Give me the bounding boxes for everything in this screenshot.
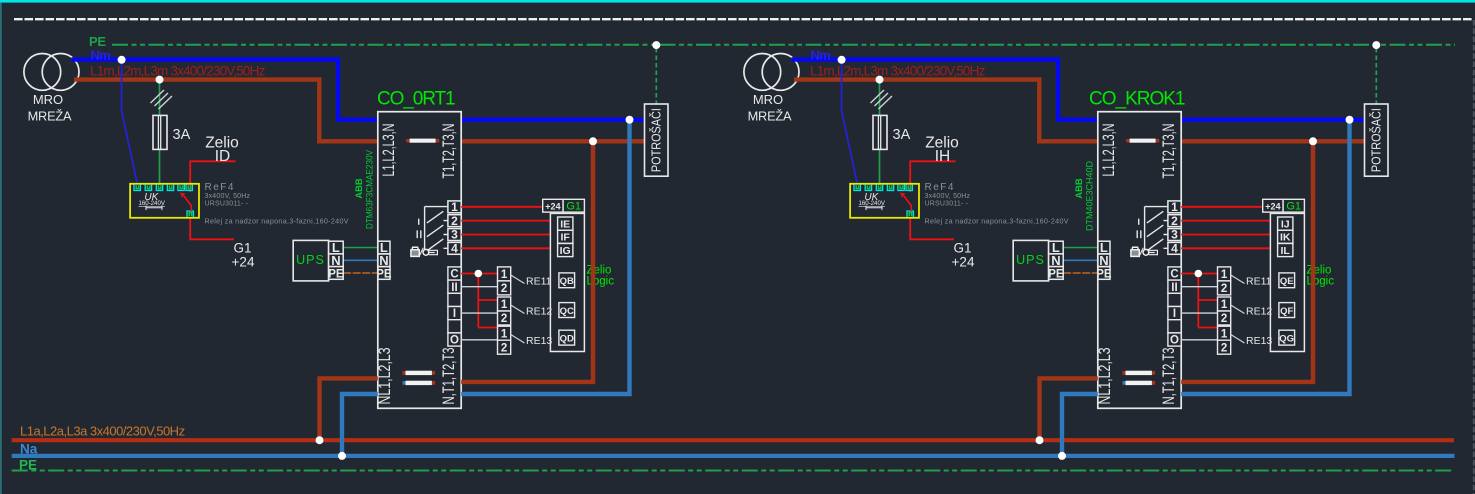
svg-text:Na: Na (20, 442, 38, 457)
svg-text:IK: IK (1280, 232, 1291, 244)
svg-text:IH: IH (935, 148, 951, 165)
svg-text:IE: IE (560, 219, 570, 231)
svg-text:DTM63F3CMAE230V: DTM63F3CMAE230V (365, 149, 376, 229)
svg-text:ABB: ABB (354, 178, 365, 199)
svg-text:DTM40E3CH40D: DTM40E3CH40D (1085, 161, 1096, 231)
svg-text:IG: IG (560, 245, 571, 257)
svg-text:QC: QC (560, 306, 574, 317)
svg-text:ID: ID (215, 148, 231, 165)
svg-text:QF: QF (1280, 306, 1293, 317)
svg-text:QE: QE (1280, 276, 1294, 287)
svg-text:IL: IL (1281, 245, 1291, 257)
svg-text:ABB: ABB (1074, 178, 1085, 199)
svg-text:QD: QD (560, 334, 574, 345)
svg-text:QG: QG (1279, 334, 1294, 345)
svg-text:CO_KROK1: CO_KROK1 (1089, 89, 1185, 110)
svg-text:QB: QB (560, 276, 574, 287)
svg-text:L1a,L2a,L3a 3x400/230V,50Hz: L1a,L2a,L3a 3x400/230V,50Hz (20, 424, 185, 439)
svg-text:IJ: IJ (1281, 219, 1290, 231)
svg-text:CO_0RT1: CO_0RT1 (377, 89, 455, 110)
svg-text:IF: IF (561, 232, 571, 244)
svg-text:PE: PE (19, 458, 37, 473)
